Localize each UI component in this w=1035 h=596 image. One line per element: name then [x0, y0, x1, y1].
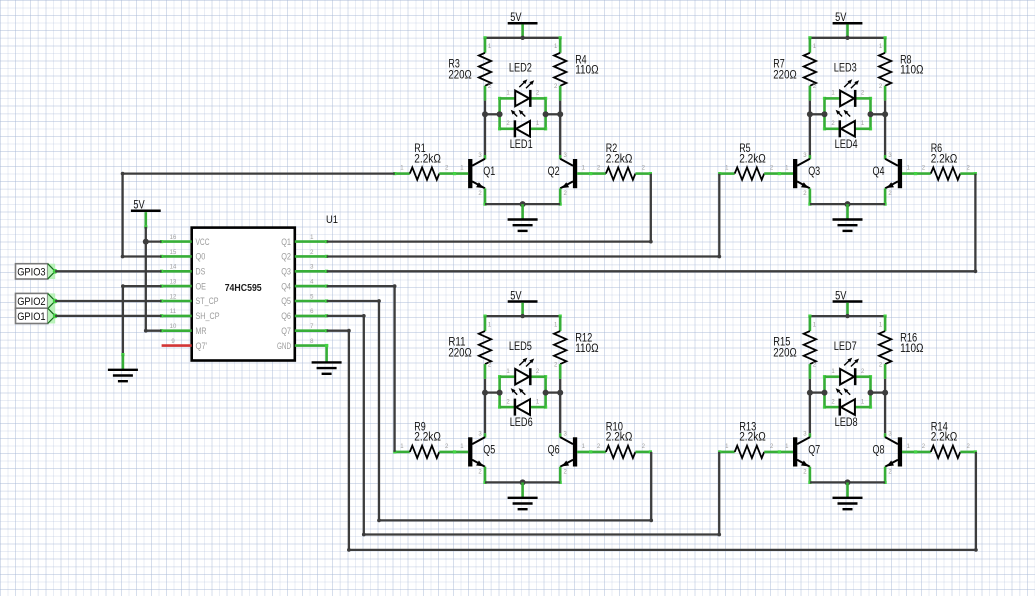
wire LED inner left vertical: [498, 97, 501, 131]
node right inner junction: [868, 111, 874, 117]
svg-text:Q7: Q7: [808, 444, 820, 456]
svg-text:Q4: Q4: [281, 281, 291, 291]
transistor Q7 (NPN left): [793, 431, 820, 475]
pin 4 Q4: [281, 280, 328, 292]
LED LED1 (bottom, anode right): [500, 110, 546, 151]
svg-text:2.2kΩ: 2.2kΩ: [414, 432, 441, 444]
pin 14 DS: [160, 265, 205, 277]
svg-text:2: 2: [478, 469, 482, 475]
svg-text:2: 2: [861, 91, 865, 97]
svg-text:1: 1: [831, 369, 835, 375]
svg-text:LED8: LED8: [835, 417, 858, 429]
svg-text:1: 1: [813, 44, 817, 50]
pin 13 OE: [160, 280, 206, 292]
pin 6 Q6: [281, 309, 328, 321]
wire right emitter: [848, 467, 887, 484]
node left inner junction: [497, 390, 503, 396]
wire left collector column: [809, 101, 811, 160]
svg-text:2: 2: [564, 469, 568, 475]
svg-text:3: 3: [888, 153, 892, 159]
wire right collector column: [559, 379, 561, 438]
power 5V (R15 group): [833, 290, 863, 316]
svg-text:1: 1: [907, 166, 911, 172]
svg-text:2: 2: [310, 250, 314, 256]
wire LED bridge right link: [546, 391, 561, 393]
node left outer junction: [482, 390, 488, 396]
svg-text:2: 2: [813, 362, 817, 368]
svg-text:3: 3: [888, 431, 892, 437]
wire right emitter: [848, 188, 887, 205]
node right inner junction: [543, 390, 549, 396]
svg-text:2: 2: [879, 84, 883, 90]
wire right emitter: [523, 467, 562, 484]
svg-text:OE: OE: [196, 281, 207, 291]
svg-text:1: 1: [785, 444, 789, 450]
svg-text:2.2kΩ: 2.2kΩ: [931, 432, 958, 444]
node left outer junction: [482, 111, 488, 117]
svg-text:1: 1: [582, 444, 586, 450]
ground (IC GND pin 8): [312, 344, 342, 374]
wire Q7 output to R14: [327, 329, 978, 552]
svg-text:2: 2: [879, 362, 883, 368]
pin 10 MR: [160, 324, 207, 336]
wire LED bridge left link: [810, 113, 825, 115]
wire 5V rail: [483, 36, 561, 40]
svg-text:2.2kΩ: 2.2kΩ: [606, 153, 633, 165]
node left inner junction: [822, 390, 828, 396]
svg-text:GPIO2: GPIO2: [17, 296, 45, 308]
svg-text:2: 2: [831, 121, 835, 127]
svg-text:3: 3: [803, 153, 807, 159]
node MR bend: [144, 329, 148, 333]
node right outer junction: [882, 111, 888, 117]
svg-text:2: 2: [488, 84, 492, 90]
svg-text:2: 2: [554, 362, 558, 368]
node emitter junction: [520, 479, 526, 485]
svg-text:2: 2: [813, 84, 817, 90]
svg-text:LED7: LED7: [834, 341, 857, 353]
power 5V (R11 group): [508, 290, 538, 316]
wire right collector column: [884, 101, 886, 160]
svg-text:2: 2: [488, 362, 492, 368]
svg-text:LED5: LED5: [509, 341, 532, 353]
svg-text:Q3: Q3: [808, 166, 820, 178]
svg-text:LED6: LED6: [510, 417, 533, 429]
svg-text:74HC595: 74HC595: [225, 282, 262, 294]
LED LED3 (top, anode left): [825, 63, 871, 107]
svg-text:3: 3: [478, 431, 482, 437]
svg-text:13: 13: [170, 280, 177, 286]
node right inner junction: [868, 390, 874, 396]
wire left emitter: [483, 188, 522, 205]
svg-text:Q2: Q2: [281, 252, 291, 262]
svg-text:Q6: Q6: [548, 444, 560, 456]
resistor R11 220&#937;: [448, 316, 491, 379]
svg-text:2: 2: [478, 191, 482, 197]
svg-text:2: 2: [770, 444, 774, 450]
resistor R2 2.2k&#937;: [577, 143, 652, 180]
svg-text:ST_CP: ST_CP: [196, 296, 219, 306]
svg-text:LED3: LED3: [834, 63, 857, 75]
pin 9 Q7' (unconnected, red): [162, 339, 208, 351]
svg-text:2.2kΩ: 2.2kΩ: [606, 432, 633, 444]
svg-text:1: 1: [879, 44, 883, 50]
power 5V (R7 group): [833, 12, 863, 38]
node left inner junction: [822, 111, 828, 117]
svg-text:4: 4: [310, 280, 314, 286]
wire LED inner right vertical: [544, 375, 547, 409]
ground: [833, 482, 863, 509]
svg-text:2: 2: [554, 84, 558, 90]
wire Q1 output to R2: [327, 174, 653, 244]
svg-text:1: 1: [813, 322, 817, 328]
resistor R5 2.2k&#937;: [718, 143, 793, 180]
svg-text:2: 2: [536, 369, 540, 375]
pin 5 Q5: [281, 294, 328, 306]
resistor R4 110&#937;: [554, 38, 599, 101]
svg-text:2: 2: [445, 166, 449, 172]
svg-text:7: 7: [310, 324, 314, 330]
svg-text:GPIO3: GPIO3: [17, 266, 45, 278]
resistor R6 2.2k&#937;: [902, 143, 977, 180]
node VCC junction: [143, 239, 149, 245]
LED LED5 (top, anode left): [500, 341, 546, 385]
svg-text:2: 2: [967, 166, 971, 172]
svg-text:1: 1: [907, 444, 911, 450]
LED LED6 (bottom, anode right): [500, 388, 546, 429]
svg-text:Q7: Q7: [281, 326, 291, 336]
svg-text:1: 1: [861, 399, 865, 405]
svg-text:9: 9: [171, 339, 175, 345]
svg-text:1: 1: [554, 322, 558, 328]
connector GPIO1: [16, 308, 58, 323]
ground (OE): [108, 370, 138, 381]
svg-text:2: 2: [564, 191, 568, 197]
svg-text:MR: MR: [196, 326, 207, 336]
svg-text:1: 1: [554, 44, 558, 50]
svg-text:220Ω: 220Ω: [773, 69, 797, 81]
wire GPIO2 to ST_CP: [55, 300, 161, 302]
wire Q2 output to R5: [327, 174, 722, 259]
svg-text:1: 1: [879, 322, 883, 328]
resistor R7 220&#937;: [773, 38, 816, 101]
wire Q0 to R1: [121, 172, 395, 259]
svg-text:3: 3: [310, 265, 314, 271]
svg-text:16: 16: [170, 235, 177, 241]
wire LED bridge right link: [871, 391, 886, 393]
svg-text:1: 1: [460, 444, 464, 450]
svg-text:8: 8: [310, 339, 314, 345]
resistor R3 220&#937;: [448, 38, 491, 101]
svg-text:Q8: Q8: [873, 444, 885, 456]
wire 5V rail: [808, 36, 886, 40]
svg-text:2: 2: [831, 399, 835, 405]
resistor R8 110&#937;: [879, 38, 924, 101]
transistor Q5 (NPN left): [468, 431, 495, 475]
connector GPIO3: [16, 264, 58, 279]
svg-text:1: 1: [725, 166, 729, 172]
wire right collector column: [884, 379, 886, 438]
svg-text:1: 1: [310, 235, 314, 241]
wire LED inner right vertical: [869, 375, 872, 409]
svg-text:2.2kΩ: 2.2kΩ: [414, 153, 441, 165]
svg-text:2.2kΩ: 2.2kΩ: [739, 432, 766, 444]
node emitter junction: [520, 201, 526, 207]
svg-text:3: 3: [803, 431, 807, 437]
svg-text:110Ω: 110Ω: [900, 343, 924, 355]
wire LED bridge right link: [546, 113, 561, 115]
svg-text:15: 15: [170, 250, 177, 256]
svg-text:1: 1: [861, 121, 865, 127]
svg-text:11: 11: [170, 309, 177, 315]
svg-text:GND: GND: [277, 341, 291, 351]
wire LED bridge left link: [485, 391, 500, 393]
svg-text:6: 6: [310, 309, 314, 315]
resistor R9 2.2k&#937;: [393, 422, 468, 459]
wire Q6 output to R13: [327, 314, 721, 536]
svg-text:1: 1: [506, 369, 510, 375]
svg-text:14: 14: [170, 265, 177, 271]
pin 15 Q0: [160, 250, 205, 262]
svg-text:Q5: Q5: [281, 296, 291, 306]
wire 5V rail: [483, 314, 561, 318]
svg-text:3: 3: [564, 431, 568, 437]
svg-text:LED2: LED2: [509, 63, 532, 75]
transistor Q3 (NPN left): [793, 153, 820, 197]
svg-text:Q2: Q2: [548, 166, 560, 178]
ground: [833, 204, 863, 231]
svg-text:2: 2: [861, 369, 865, 375]
svg-text:Q1: Q1: [281, 237, 291, 247]
svg-text:Q0: Q0: [196, 252, 206, 262]
wire left emitter: [808, 467, 847, 484]
svg-text:2: 2: [597, 166, 601, 172]
LED LED7 (top, anode left): [825, 341, 871, 385]
wire left collector column: [484, 101, 486, 160]
node right outer junction: [557, 390, 563, 396]
svg-text:1: 1: [460, 166, 464, 172]
svg-text:110Ω: 110Ω: [900, 65, 924, 77]
wire Q3 output to R6: [327, 174, 978, 274]
wire Q5 output to R10: [327, 299, 653, 522]
node right outer junction: [557, 111, 563, 117]
transistor Q2 (NPN right): [548, 153, 578, 197]
wire GPIO1 to SH_CP: [55, 315, 161, 317]
svg-text:1: 1: [536, 399, 540, 405]
pin 8 GND: [277, 339, 328, 351]
svg-text:2: 2: [967, 444, 971, 450]
svg-text:10: 10: [170, 324, 177, 330]
svg-text:220Ω: 220Ω: [448, 69, 472, 81]
svg-text:1: 1: [785, 166, 789, 172]
wire LED bridge left link: [810, 391, 825, 393]
svg-text:1: 1: [488, 322, 492, 328]
svg-text:2: 2: [597, 444, 601, 450]
svg-text:1: 1: [582, 166, 586, 172]
svg-text:1: 1: [536, 121, 540, 127]
resistor R12 110&#937;: [554, 316, 599, 379]
wire LED inner left vertical: [823, 375, 826, 409]
wire LED inner right vertical: [869, 97, 872, 131]
svg-text:2: 2: [803, 469, 807, 475]
resistor R15 220&#937;: [773, 316, 816, 379]
svg-text:GPIO1: GPIO1: [17, 311, 45, 323]
svg-text:2.2kΩ: 2.2kΩ: [931, 153, 958, 165]
pin 7 Q7: [281, 324, 328, 336]
svg-text:2: 2: [445, 444, 449, 450]
pin 1 Q1: [281, 235, 328, 247]
svg-text:12: 12: [170, 294, 177, 300]
power 5V (left): [131, 200, 161, 229]
svg-text:3: 3: [564, 153, 568, 159]
wire left emitter: [483, 467, 522, 484]
svg-text:SH_CP: SH_CP: [196, 311, 220, 321]
svg-text:2: 2: [922, 444, 926, 450]
svg-text:1: 1: [506, 91, 510, 97]
svg-text:Q5: Q5: [483, 444, 495, 456]
wire Q4 output to R9: [327, 284, 397, 452]
svg-text:2: 2: [803, 191, 807, 197]
resistor R14 2.2k&#937;: [902, 422, 977, 459]
wire LED inner left vertical: [823, 97, 826, 131]
pin 11 SH_CP: [160, 309, 220, 321]
resistor R10 2.2k&#937;: [577, 422, 652, 459]
wire GPIO3 to DS: [55, 270, 161, 272]
svg-text:1: 1: [400, 444, 404, 450]
svg-text:2: 2: [536, 91, 540, 97]
transistor Q6 (NPN right): [548, 431, 578, 475]
wire 5V rail: [808, 314, 886, 318]
transistor Q1 (NPN left): [468, 153, 495, 197]
node right inner junction: [543, 111, 549, 117]
wire 5V to VCC and MR: [146, 227, 162, 331]
wire left emitter: [808, 188, 847, 205]
transistor Q8 (NPN right): [873, 431, 903, 475]
svg-text:2: 2: [888, 469, 892, 475]
wire left collector column: [484, 379, 486, 438]
svg-text:2: 2: [642, 444, 646, 450]
node left outer junction: [807, 111, 813, 117]
ground: [508, 204, 538, 231]
wire LED inner right vertical: [544, 97, 547, 131]
wire LED inner left vertical: [498, 375, 501, 409]
svg-text:5: 5: [310, 294, 314, 300]
svg-text:1: 1: [831, 91, 835, 97]
pin 16 VCC: [160, 235, 210, 247]
svg-text:2: 2: [888, 191, 892, 197]
svg-text:2: 2: [922, 166, 926, 172]
node emitter junction: [845, 479, 851, 485]
resistor R1 2.2k&#937;: [393, 143, 468, 180]
LED LED4 (bottom, anode right): [825, 110, 871, 151]
svg-text:2: 2: [770, 166, 774, 172]
svg-text:U1: U1: [326, 214, 338, 226]
svg-text:1: 1: [725, 444, 729, 450]
svg-text:Q4: Q4: [873, 166, 885, 178]
wire right emitter: [523, 188, 562, 205]
power 5V (R3 group): [508, 12, 538, 38]
wire right collector column: [559, 101, 561, 160]
LED LED8 (bottom, anode right): [825, 388, 871, 429]
wire left collector column: [809, 379, 811, 438]
svg-text:1: 1: [488, 44, 492, 50]
svg-text:220Ω: 220Ω: [773, 348, 797, 360]
IC U1 74HC595: [192, 228, 295, 361]
svg-text:1: 1: [400, 166, 404, 172]
svg-text:LED1: LED1: [510, 139, 533, 151]
node right outer junction: [882, 390, 888, 396]
LED LED2 (top, anode left): [500, 63, 546, 107]
svg-text:VCC: VCC: [196, 237, 210, 247]
svg-text:220Ω: 220Ω: [448, 348, 472, 360]
ground: [508, 482, 538, 509]
svg-text:DS: DS: [196, 267, 206, 277]
pin 3 Q3: [281, 265, 328, 277]
node emitter junction: [845, 201, 851, 207]
svg-text:2: 2: [506, 399, 510, 405]
svg-text:Q7’: Q7’: [196, 341, 208, 351]
svg-text:3: 3: [478, 153, 482, 159]
svg-text:2: 2: [506, 121, 510, 127]
svg-text:Q1: Q1: [483, 166, 495, 178]
node left inner junction: [497, 111, 503, 117]
wire LED bridge right link: [871, 113, 886, 115]
svg-text:LED4: LED4: [835, 139, 858, 151]
connector GPIO2: [16, 293, 58, 308]
svg-text:Q6: Q6: [281, 311, 291, 321]
svg-text:2.2kΩ: 2.2kΩ: [739, 153, 766, 165]
wire LED bridge left link: [485, 113, 500, 115]
resistor R13 2.2k&#937;: [718, 422, 793, 459]
label U1: [326, 214, 338, 226]
pin 2 Q2: [281, 250, 328, 262]
svg-text:Q3: Q3: [281, 267, 291, 277]
transistor Q4 (NPN right): [873, 153, 903, 197]
pin 12 ST_CP: [160, 294, 219, 306]
resistor R16 110&#937;: [879, 316, 924, 379]
node left outer junction: [807, 390, 813, 396]
svg-text:2: 2: [642, 166, 646, 172]
svg-text:110Ω: 110Ω: [575, 343, 599, 355]
wire OE to ground: [121, 284, 162, 369]
svg-text:110Ω: 110Ω: [575, 65, 599, 77]
